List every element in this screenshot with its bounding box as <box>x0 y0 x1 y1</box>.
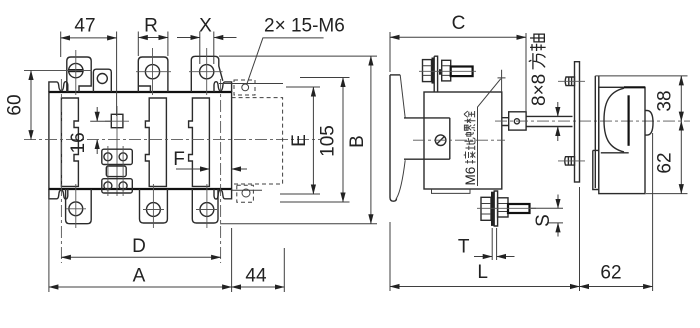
svg-text:60: 60 <box>5 94 26 115</box>
bottom shroud line <box>432 189 471 193</box>
tab1 slot bar <box>68 69 84 72</box>
hanzi fang <box>529 53 546 69</box>
panel plate <box>575 62 580 182</box>
middle nut block <box>106 166 126 177</box>
square shaft <box>526 116 572 126</box>
svg-text:X: X <box>199 16 212 37</box>
block upper holes <box>104 153 112 161</box>
ground bolt washer <box>491 192 494 226</box>
dimension S <box>531 208 563 223</box>
svg-text:D: D <box>132 236 146 257</box>
dimension 105 <box>280 78 350 203</box>
dimension 60 <box>30 71 32 140</box>
svg-text:105: 105 <box>318 125 339 157</box>
upper bolt nut <box>442 60 451 81</box>
svg-text:F: F <box>173 149 185 170</box>
hanzi jie <box>464 152 476 164</box>
svg-text:2× 15-M6: 2× 15-M6 <box>264 16 345 37</box>
svg-text:47: 47 <box>74 16 95 37</box>
svg-text:E: E <box>289 134 310 147</box>
svg-text:B: B <box>347 135 368 148</box>
side extension dashed outline <box>232 98 283 184</box>
shaft coupler block <box>509 112 526 130</box>
hanzi luo <box>464 125 475 137</box>
tab2 hole <box>145 65 159 79</box>
mid tab hole <box>97 74 107 84</box>
terminal tab 1 <box>67 57 91 92</box>
bracket top slant <box>400 75 405 118</box>
svg-text:A: A <box>133 266 146 287</box>
handle D recess arc <box>604 88 624 152</box>
upper bolt plate <box>434 56 437 92</box>
hanzi shuan <box>464 111 475 123</box>
M6 ground label text <box>463 111 478 186</box>
square centerline v <box>116 106 118 196</box>
adapter top ext line <box>595 75 687 77</box>
svg-text:T: T <box>458 237 470 258</box>
block lower holes <box>104 182 112 190</box>
mounting notch bottom-right <box>214 189 232 199</box>
handle adapter plate <box>595 76 599 188</box>
tab3 hole <box>200 65 214 79</box>
bottom tab3 hole <box>200 203 214 217</box>
dimension C <box>390 32 526 111</box>
M6 hole top dashed box <box>234 80 255 95</box>
panel bolt upper <box>565 77 574 86</box>
M6 ground label leader <box>478 70 506 186</box>
coupler hole <box>514 119 519 124</box>
dimension E <box>280 87 320 194</box>
svg-text:38: 38 <box>655 90 676 111</box>
terminal tab 3 <box>191 56 223 92</box>
main body outline <box>49 92 232 189</box>
svg-text:62: 62 <box>655 152 676 173</box>
svg-text:M6: M6 <box>463 167 478 186</box>
handle side bump <box>645 111 653 136</box>
hanzi zhou <box>530 34 546 51</box>
handle grip <box>627 95 629 146</box>
bracket foot hook <box>390 198 397 202</box>
pole slot 3 <box>189 98 210 186</box>
shaft to body links <box>502 118 509 126</box>
body bottom edge bold <box>49 188 232 190</box>
frame top bold segment <box>624 86 645 88</box>
ground bolt shaft <box>508 204 530 213</box>
bracket face line <box>389 75 391 198</box>
dimension A <box>49 196 284 292</box>
rivet screw <box>435 135 446 146</box>
svg-text:C: C <box>452 13 466 34</box>
body centerline <box>413 139 505 141</box>
bottom tab 1 <box>66 189 92 224</box>
svg-text:L: L <box>477 262 488 283</box>
lower left step <box>593 150 599 189</box>
label 8x8 square shaft <box>529 34 550 106</box>
ground bolt nut <box>498 198 508 217</box>
terminal tab 2 <box>138 57 168 92</box>
dimension 62 right <box>680 121 682 194</box>
bottom tab 2 <box>140 189 168 223</box>
dimension D <box>61 256 220 258</box>
body top edge bold <box>49 91 232 93</box>
dimension L <box>390 187 580 291</box>
upper bolt centerline <box>419 70 476 72</box>
upper bolt spring washer <box>439 69 442 75</box>
svg-text:44: 44 <box>245 266 267 287</box>
pole slot 2 <box>145 98 166 186</box>
dimension B <box>219 56 377 224</box>
pole slot 1 <box>61 98 78 186</box>
notch centerline right <box>220 79 222 263</box>
bottom tab1 hole <box>69 202 83 216</box>
tab hole centerlines <box>136 71 223 73</box>
boss right edge <box>449 118 451 159</box>
square centerline h <box>105 120 129 122</box>
side body box <box>424 92 502 189</box>
recess bottom line <box>601 152 629 154</box>
bottom tab2 hole <box>147 203 161 217</box>
extension bottom line <box>232 189 262 191</box>
mounting notch top-right <box>214 82 232 92</box>
handle frame <box>599 87 645 193</box>
bottom tab 3 <box>192 189 218 223</box>
terminal block lower <box>102 179 133 193</box>
M6 hole top circle <box>242 84 249 91</box>
dimension 8x8 arrows <box>557 102 559 116</box>
ground bolt head <box>481 197 491 220</box>
dimension 16 <box>90 120 111 122</box>
mounting notch top-left <box>49 82 68 92</box>
upper bolt shaft <box>451 67 473 77</box>
dimension 62 bottom <box>652 133 654 291</box>
small mid tab <box>93 69 111 92</box>
bracket top edge <box>390 74 400 76</box>
ground bolt plate <box>494 191 497 226</box>
svg-text:R: R <box>144 16 158 37</box>
M6 hole bottom dashed box <box>237 185 254 202</box>
svg-text:16: 16 <box>68 132 89 153</box>
dimension X <box>200 32 214 65</box>
extension top line <box>219 83 283 85</box>
bottom tab centerlines <box>66 184 217 228</box>
adjusting square <box>111 114 123 127</box>
dimension 47 <box>61 32 117 117</box>
svg-text:8×8: 8×8 <box>529 74 550 106</box>
bracket waist lines <box>404 118 450 159</box>
upper bolt washer <box>432 58 435 84</box>
dimension T <box>492 228 496 260</box>
dimension R <box>138 32 168 57</box>
M6 hole bottom circle <box>242 189 250 197</box>
hanzi di <box>465 138 476 150</box>
block centerlines <box>108 146 123 196</box>
ground bolt centerline <box>477 207 536 209</box>
tab1 hole <box>69 63 83 77</box>
panel bolt lower <box>565 157 575 165</box>
upper bolt head <box>423 60 432 82</box>
shaft centerline <box>495 120 690 122</box>
main horizontal centerline <box>24 139 320 141</box>
bracket bottom slant <box>397 160 406 198</box>
notch centerline left <box>60 79 62 263</box>
svg-text:62: 62 <box>600 263 621 284</box>
terminal block upper <box>102 149 133 164</box>
mounting notch bottom-left <box>49 189 68 199</box>
top tab centerlines <box>24 48 207 95</box>
svg-text:S: S <box>533 214 554 227</box>
dimension 44 <box>232 286 285 288</box>
dimension 38 <box>646 193 688 195</box>
